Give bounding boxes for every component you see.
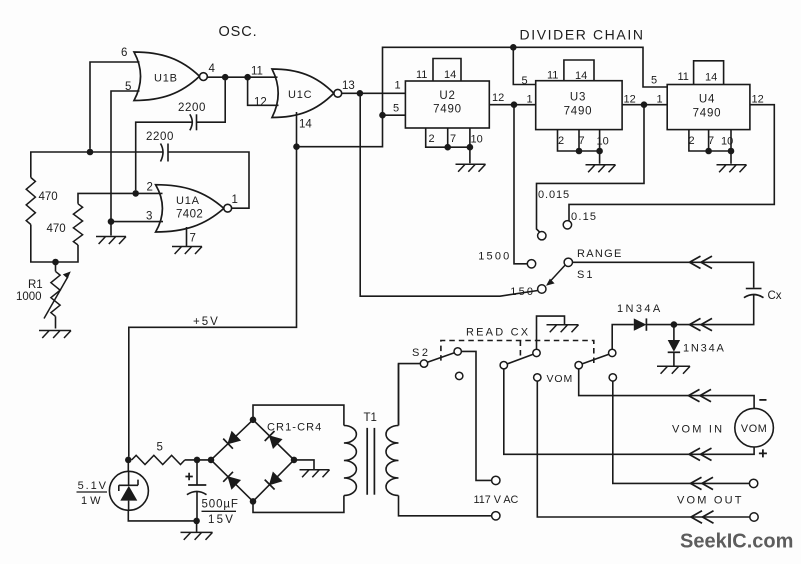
wire 150 contact to U1C output [360,97,538,297]
svg-text:15V: 15V [208,514,235,526]
node top rail to U3 pin5 [510,44,517,51]
node 0.015 branch [641,101,648,108]
svg-text:SeekIC.com: SeekIC.com [680,531,793,553]
svg-text:500µF: 500µF [202,499,239,511]
wire U4 ground pins [689,130,731,164]
svg-text:2: 2 [147,182,153,194]
wire pin14 to pin5 rail [297,115,383,147]
diode CR series 1N34A [634,318,647,330]
wire pole2 top contact to hook ground [537,316,565,349]
svg-text:1W: 1W [81,495,104,507]
svg-text:2200: 2200 [178,102,206,114]
switch S2 pole3 top contact [609,349,616,356]
wire feedback line left of C2 [31,152,163,178]
svg-text:14: 14 [299,119,312,131]
wire 0.015 contact net [537,105,645,233]
wire U1B pin6 [90,62,140,149]
IC U4 7490 [667,85,750,130]
svg-text:RANGE: RANGE [577,248,623,260]
svg-text:12: 12 [752,94,764,106]
svg-text:2200: 2200 [146,131,174,143]
switch S2 pole2 lower contact VOM [534,374,541,381]
jack chevrons on VOM OUT lower wire [691,511,714,523]
svg-text:5: 5 [393,103,399,115]
wire U1A pin3 [111,221,163,223]
svg-text:7490: 7490 [693,108,722,120]
svg-text:5: 5 [651,75,657,87]
resistor 470 upper [26,178,35,225]
switch S2 pole3 lower contact [609,374,616,381]
svg-text:VOM IN: VOM IN [672,424,724,436]
terminal VOM OUT lower [750,513,758,521]
U2 pins 11-14 jumper [433,59,461,82]
switch S2 pole1 lower contact [456,372,463,379]
wire U2 pin5 [383,114,406,116]
node bridge left corner [208,457,215,464]
node U1C output [357,90,364,97]
wire resistor to bridge [185,459,211,461]
switch S2 pole3 arm [582,354,609,364]
ground at U1A pin7 [172,247,202,255]
svg-text:VOM: VOM [741,423,767,435]
svg-text:7490: 7490 [564,106,593,118]
svg-text:2: 2 [558,135,564,147]
svg-text:11: 11 [251,66,263,78]
wire U1C pin12 tie loop [248,77,279,105]
node U2 pin5 branch [379,112,386,119]
svg-text:14: 14 [575,70,587,82]
svg-text:10: 10 [471,134,483,146]
ground at U1A pin3 net [96,237,126,245]
svg-text:DIVIDER CHAIN: DIVIDER CHAIN [520,27,645,43]
wire pin3 ground stub [110,222,112,236]
contact 0.15 [563,221,571,229]
svg-text:11: 11 [547,70,558,82]
svg-text:470: 470 [47,223,66,235]
svg-text:0.015: 0.015 [538,189,570,201]
svg-text:11: 11 [678,71,689,83]
svg-text:1: 1 [395,80,401,92]
zener diode CR5 5.1V [109,471,148,510]
wire S1 to Cx [573,262,754,287]
ground at bridge right [300,470,330,478]
node U2 pin10 junction [467,144,474,151]
wire diode row [612,325,634,350]
node U4 pin7 junction [705,148,712,155]
node 1500 branch [511,101,518,108]
svg-text:5: 5 [522,75,528,87]
U3 pins 11-14 jumper [564,60,594,81]
svg-text:11: 11 [416,69,427,81]
wire U3 ground pins [558,130,600,164]
IC U2 7490 [405,81,489,128]
transformer T1 primary winding [386,426,399,496]
svg-text:U1A: U1A [176,195,200,207]
svg-text:4: 4 [209,63,216,75]
node U4 pin10 junction [728,148,735,155]
diode CR1 top-left [228,432,240,444]
svg-text:1N34A: 1N34A [683,343,726,355]
node diode junction [671,321,678,328]
switch S2 pole3 common [575,362,582,369]
svg-text:U1C: U1C [288,89,312,101]
label plus [759,449,767,457]
node filter cap top [194,457,201,464]
svg-text:10: 10 [597,136,609,148]
ground below shunt diode [657,366,690,374]
svg-text:6: 6 [121,47,127,59]
svg-text:117 V AC: 117 V AC [474,494,519,506]
U4 pins 11-14 jumper [694,61,724,85]
wire U1B pin5 [111,91,140,219]
svg-text:7402: 7402 [176,209,203,221]
jack chevrons on VOM OUT upper wire [691,477,714,489]
label minus [759,399,766,401]
wire U4 pin12 to 0.15 contact [569,105,774,221]
wire C1 right to U1B output node [197,80,226,122]
svg-text:1000: 1000 [16,291,42,303]
potentiometer R1 1000 [51,271,60,316]
svg-text:VOM OUT: VOM OUT [677,495,744,507]
jack chevrons on VOM plus wire [689,448,712,460]
capacitor 500uF 15V [196,460,198,485]
wire rail to U3 pin5 [513,47,535,84]
node bridge top corner [250,417,257,424]
svg-text:7490: 7490 [433,104,462,116]
wire bridge right corner to ground [294,460,314,469]
diode CR3 bottom-left [228,477,240,489]
svg-text:12: 12 [254,97,267,109]
svg-text:U3: U3 [570,92,586,104]
jack chevrons on RANGE wire [690,256,713,268]
capacitor Cx [746,288,762,290]
svg-text:5.1V: 5.1V [78,480,108,492]
svg-text:S1: S1 [577,269,594,281]
terminal 117VAC upper [492,476,500,484]
wire C1 left to U1A pin2 node [136,122,193,190]
ground below R1 [39,331,71,339]
switch S2 pole1 top contact [454,348,461,355]
wire shunt diode to ground [673,352,675,365]
IC U3 7490 [536,81,622,130]
dashed mechanical link box [441,341,594,364]
node U3 pin10 junction [596,148,603,155]
svg-text:5: 5 [157,442,163,454]
switch S2 pole2 top contact [533,349,540,356]
switch S2 pole2 arm [507,354,533,364]
jack chevrons on VOM minus wire [689,389,712,401]
node U1C input tie [244,74,251,81]
node pin6 junction [87,149,94,156]
wire pin5 branch to top rail [383,47,668,115]
node U2 pin7 junction [444,144,451,151]
svg-text:U2: U2 [439,90,455,102]
wire T1 primary top [398,364,400,426]
wire 1500 contact net [514,105,527,264]
switch S2 pole2 common [500,362,507,369]
node bridge right corner [291,457,298,464]
svg-text:14: 14 [705,72,717,84]
wire U1C pin14 stub [296,112,298,147]
wire +5V rail [129,147,297,457]
diode shunt 1N34A [673,325,675,340]
wire U1A pin7 stub [186,227,188,246]
svg-text:T1: T1 [364,412,377,424]
svg-text:R1: R1 [28,279,43,291]
ground below U3 [586,165,616,173]
ground below U4 [717,165,747,173]
svg-text:470: 470 [39,191,58,203]
switch S2 pole1 arm [427,353,454,363]
terminal VOM OUT upper [749,479,757,487]
contact 0.015 [538,232,546,240]
node bridge bottom corner [250,498,257,505]
wire U3 pin12 to U4 pin1 [622,104,667,106]
node pin3 ground junction [108,218,115,225]
capacitor C1 2200 [196,114,198,130]
svg-text:Cx: Cx [768,290,782,302]
node bottom rail / cap [193,518,200,525]
resistor 5 [132,455,185,464]
contact 1500 [527,260,535,268]
wire bridge bottom to T1 secondary [253,496,344,513]
wire pole1 top contact to 117VAC [461,351,491,480]
wire 470 lower bottom to junction [56,245,79,262]
svg-text:13: 13 [342,80,355,92]
meter VOM [735,408,774,447]
capacitor C2 2200 [167,144,169,162]
node +5V to zener/resistor [125,457,132,464]
wire U2 pin12 to U3 pin1 [489,104,535,106]
wire pole2 lower contact to VOM OUT lower [537,381,749,517]
svg-text:2: 2 [429,133,435,145]
wire pole3 common to VOM minus [579,369,754,409]
svg-text:7: 7 [450,133,456,145]
svg-text:1N34A: 1N34A [617,303,663,315]
wire 470 upper to junction [31,225,53,263]
wire U1C output to U2 pin1 [342,92,406,94]
svg-text:1: 1 [657,94,663,106]
capacitor 500uF plus label [185,473,192,480]
svg-text:CR1-CR4: CR1-CR4 [267,422,322,434]
svg-text:+5V: +5V [193,316,220,328]
resistor 470 lower [73,204,82,245]
wire 470 lower top to U1A pin2 [78,193,163,203]
R1 wiper arrow [44,277,68,319]
svg-text:1: 1 [527,94,533,106]
ground hook at READ CX [547,325,579,333]
svg-text:OSC.: OSC. [219,24,258,40]
wire C2 right to U1A output [168,152,249,208]
diode CR4 bottom-right [270,473,282,485]
NOR gate U1C [272,69,334,118]
svg-text:14: 14 [444,69,456,81]
wire pole1 common to T1 [399,364,421,426]
ground below U2 [456,164,486,172]
svg-text:0.15: 0.15 [571,211,597,223]
wire U1B output to U1C inputs [207,76,277,78]
svg-text:7: 7 [190,233,196,245]
ground below filter cap [196,521,198,532]
NOR gate U1A [156,185,224,232]
wire zener bottom rail [128,510,196,521]
svg-text:READ CX: READ CX [466,327,530,339]
jack chevrons on Cx return wire [690,318,713,330]
wire bridge top to T1 secondary [253,405,344,425]
terminal 117VAC lower [492,512,500,520]
svg-text:U1B: U1B [154,73,178,85]
node U3 pin7 junction [576,148,583,155]
wire U2 ground pins [426,128,470,163]
bridge rectifier diamond [211,420,294,502]
node output U1B / cap branch [222,74,229,81]
switch S2 pole1 common [420,360,427,367]
svg-text:S2: S2 [412,347,430,359]
wire T1 primary bottom to 117VAC [399,496,492,516]
contact 150 [538,285,546,293]
svg-text:VOM: VOM [547,373,574,385]
wire pole2 common to VOM plus [504,369,754,454]
svg-text:12: 12 [624,94,636,106]
node cap/resistor/pin2 [132,190,139,197]
node U1C pin14 / +5V junction [293,143,300,150]
svg-text:12: 12 [492,92,504,104]
svg-text:U4: U4 [699,94,715,106]
svg-text:1500: 1500 [478,251,511,263]
transformer T1 secondary winding [344,426,357,496]
switch S1 arm [550,265,565,281]
svg-text:1: 1 [232,194,238,206]
NOR gate U1B [134,52,200,101]
node resistor junction [52,259,59,266]
transformer T1 core [366,428,368,495]
svg-text:3: 3 [146,211,152,223]
wire Cx bottom to diode junction [677,295,754,325]
diode CR2 top-right [270,436,282,448]
switch S1 common contact [564,258,572,266]
wire pole3 lower contact to VOM OUT upper [613,381,750,483]
